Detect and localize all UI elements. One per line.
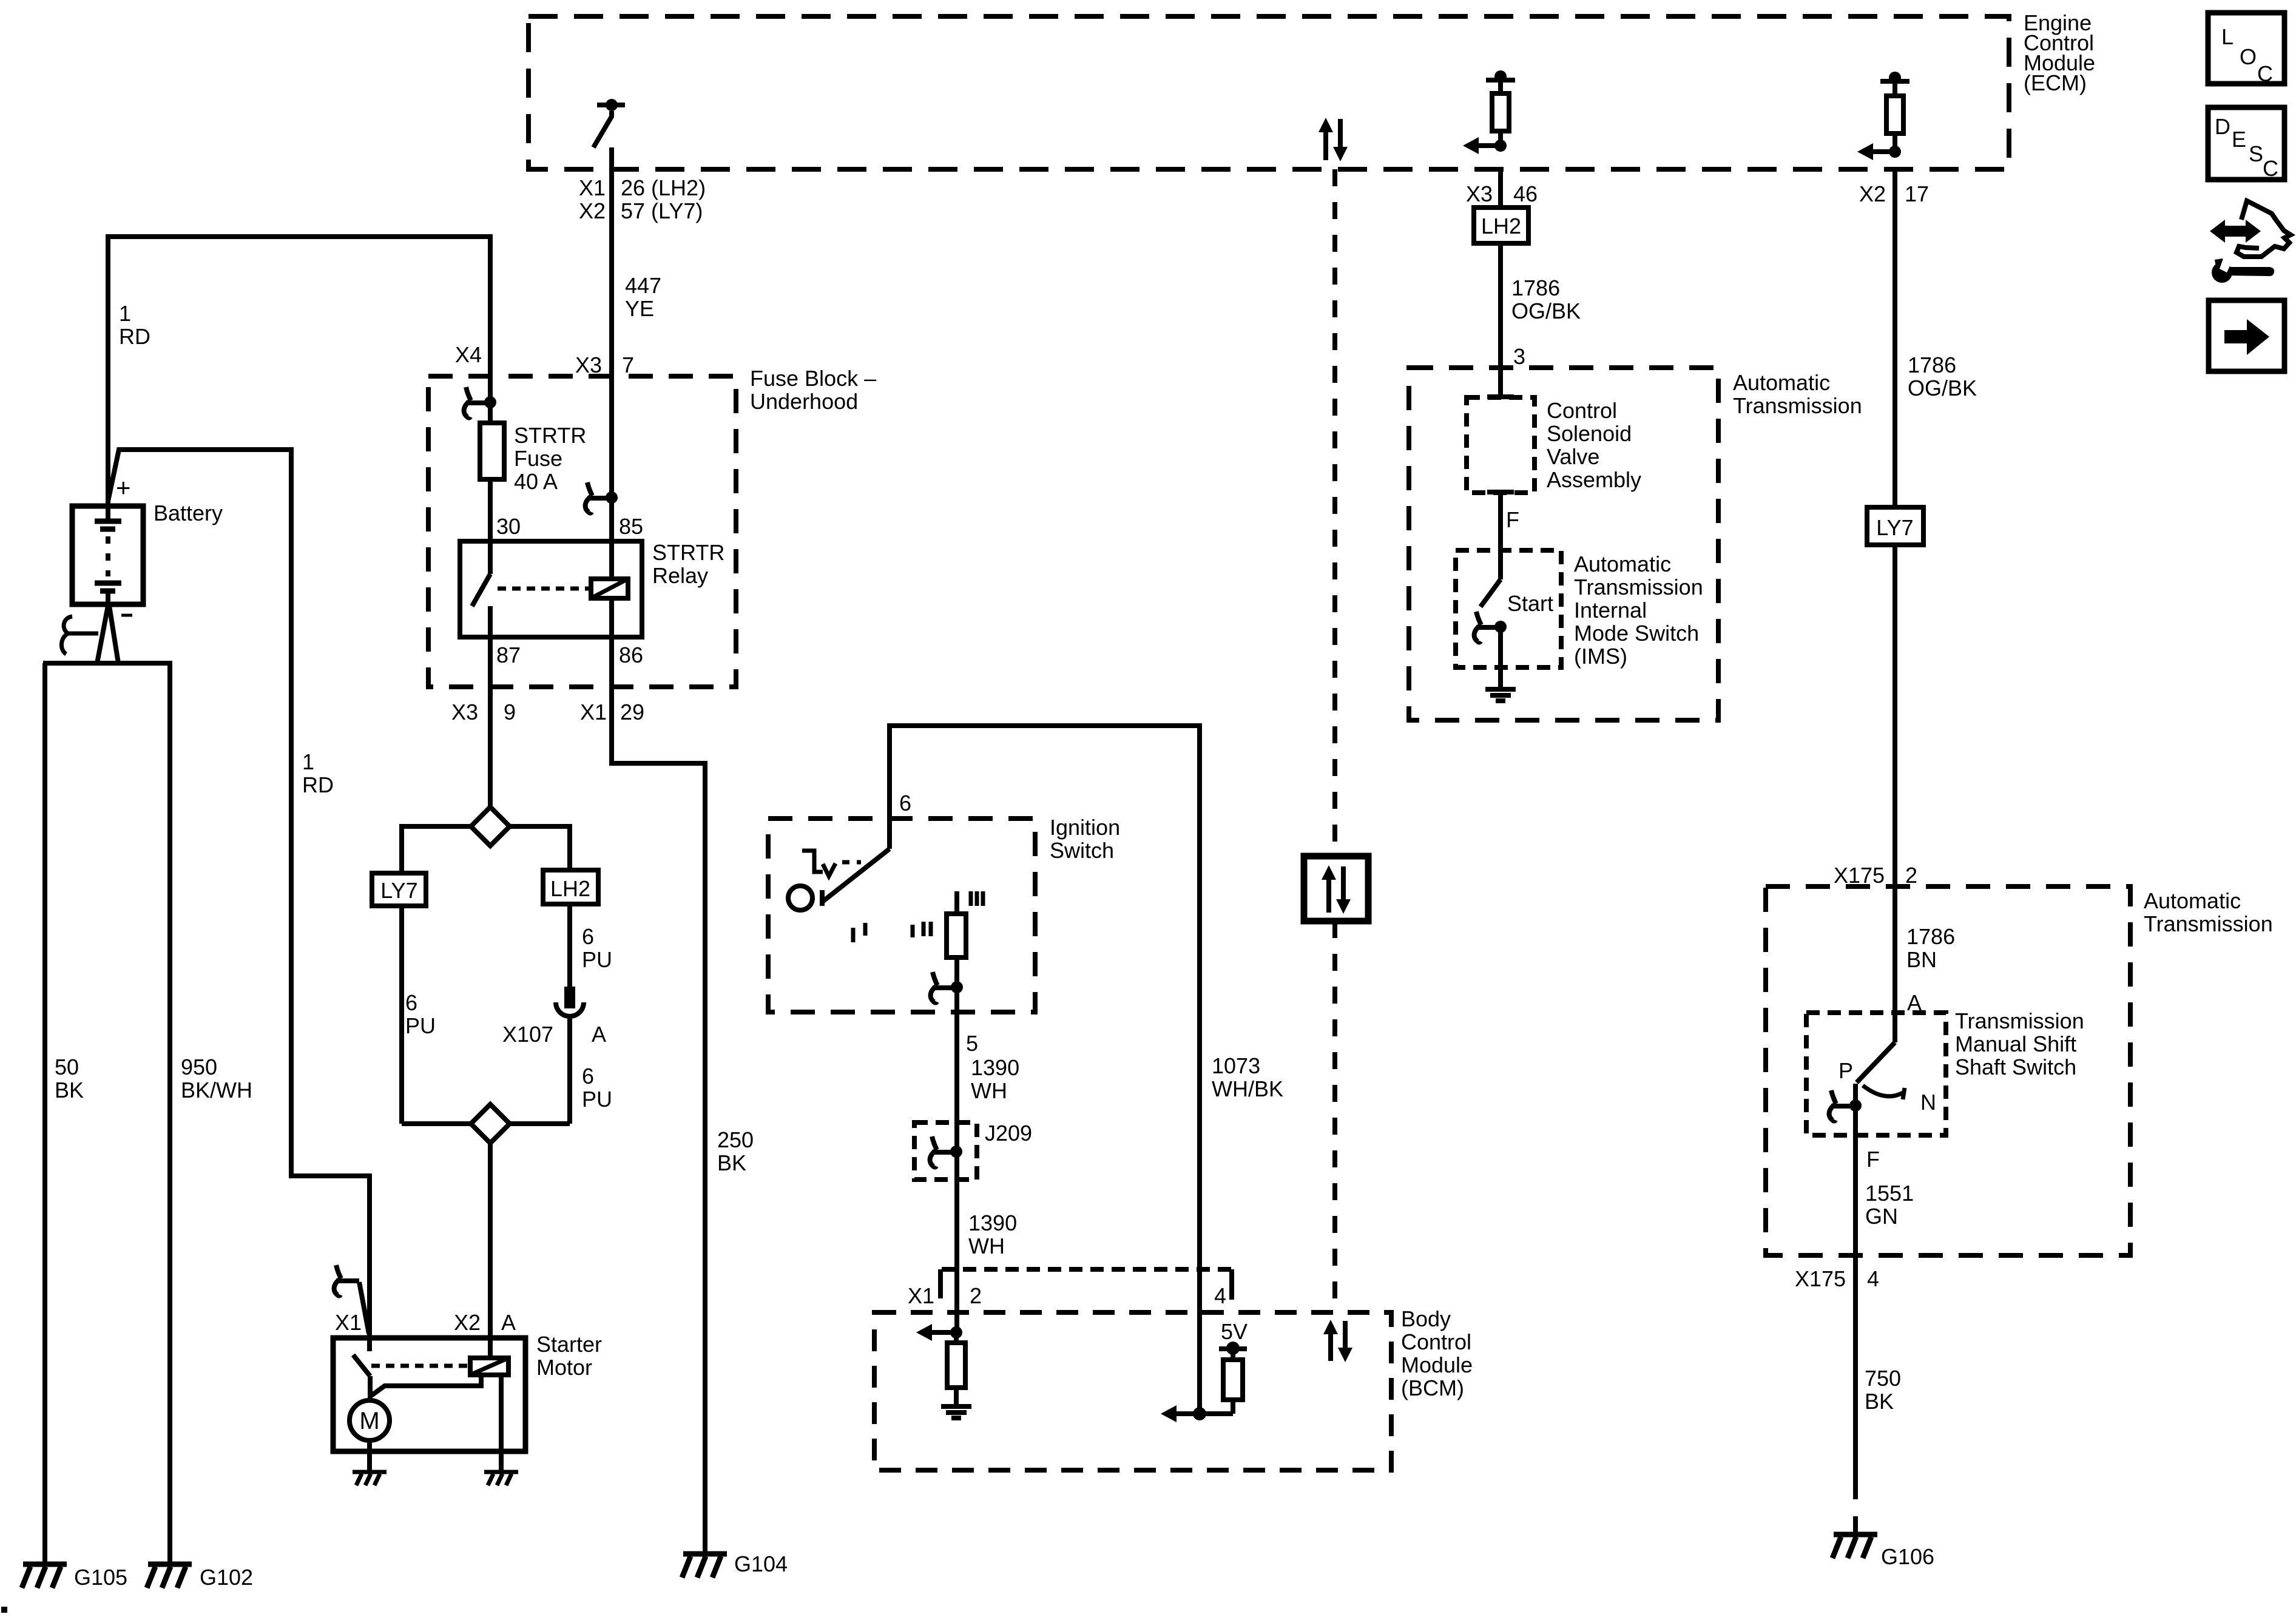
svg-text:85: 85 bbox=[619, 514, 643, 539]
svg-text:G106: G106 bbox=[1881, 1544, 1934, 1569]
svg-text:Automatic: Automatic bbox=[1733, 370, 1830, 395]
svg-text:X3: X3 bbox=[575, 353, 602, 377]
control solenoid valve assembly dashed box bbox=[1467, 397, 1535, 493]
svg-text:X1: X1 bbox=[335, 1310, 362, 1335]
svg-text:OG/BK: OG/BK bbox=[1908, 376, 1977, 400]
svg-text:STRTR: STRTR bbox=[514, 423, 586, 448]
relay coil bbox=[591, 579, 628, 598]
BCM pull-down resistor bbox=[947, 1343, 965, 1388]
svg-text:X1: X1 bbox=[580, 700, 607, 724]
svg-text:1390: 1390 bbox=[968, 1210, 1017, 1235]
ECM pull-up resistor to LH2 output X3-46 bbox=[1494, 70, 1507, 83]
engine code box LH2 bbox=[543, 870, 598, 904]
ignition switch blade bbox=[821, 849, 890, 903]
svg-text:C: C bbox=[2257, 61, 2273, 86]
svg-text:Transmission: Transmission bbox=[1574, 575, 1703, 599]
svg-text:40 A: 40 A bbox=[514, 469, 558, 494]
serial data dashed wire lower half bbox=[1332, 921, 1337, 1312]
svg-text:GN: GN bbox=[1865, 1204, 1898, 1229]
svg-text:Transmission: Transmission bbox=[2144, 911, 2273, 936]
svg-text:STRTR: STRTR bbox=[652, 540, 724, 565]
wire 6 PU below X107 bbox=[567, 1019, 572, 1124]
serial data dashed wire from ECM to BCM bbox=[1332, 169, 1337, 856]
svg-text:RD: RD bbox=[302, 772, 334, 797]
svg-text:BK: BK bbox=[1865, 1389, 1894, 1414]
svg-text:Internal: Internal bbox=[1574, 598, 1647, 623]
splice diamond lower bbox=[402, 1121, 471, 1126]
svg-text:Transmission: Transmission bbox=[1733, 393, 1862, 418]
IMS ground wire bbox=[1498, 627, 1503, 689]
diagnostic hand and wrench icon bbox=[2210, 201, 2291, 283]
svg-text:WH/BK: WH/BK bbox=[1212, 1076, 1283, 1101]
svg-text:+: + bbox=[116, 473, 131, 502]
ignition position ticks I bbox=[851, 928, 856, 942]
svg-text:950: 950 bbox=[181, 1055, 217, 1079]
starter dashed link bbox=[371, 1364, 470, 1368]
svg-text:D: D bbox=[2215, 114, 2230, 139]
automatic transmission dashed box (shift switch) bbox=[1766, 886, 2130, 1255]
svg-text:BK: BK bbox=[55, 1078, 84, 1102]
wire to LY7 branch bbox=[402, 826, 471, 873]
svg-text:S: S bbox=[2249, 141, 2263, 166]
ground G104 bbox=[683, 1551, 727, 1557]
svg-text:X2: X2 bbox=[579, 198, 606, 223]
svg-text:PU: PU bbox=[582, 1087, 612, 1112]
svg-text:7: 7 bbox=[622, 353, 634, 377]
svg-text:Module: Module bbox=[1401, 1352, 1473, 1377]
battery negative clip bbox=[61, 616, 72, 654]
svg-text:250: 250 bbox=[717, 1127, 754, 1152]
svg-text:3: 3 bbox=[1513, 344, 1525, 369]
svg-text:Underhood: Underhood bbox=[750, 389, 858, 414]
starter motor M bbox=[349, 1400, 390, 1440]
svg-text:X2: X2 bbox=[1859, 181, 1886, 206]
svg-text:Switch: Switch bbox=[1050, 838, 1114, 863]
svg-text:26 (LH2): 26 (LH2) bbox=[621, 175, 706, 200]
svg-text:5V: 5V bbox=[1221, 1319, 1248, 1344]
IMS ground bbox=[1485, 687, 1516, 692]
svg-text:Mode Switch: Mode Switch bbox=[1574, 621, 1699, 646]
svg-text:(IMS): (IMS) bbox=[1574, 644, 1627, 669]
svg-text:6: 6 bbox=[405, 990, 417, 1015]
transmission manual shift shaft switch dashed box bbox=[1806, 1013, 1946, 1135]
forward arrow legend box bbox=[2209, 300, 2284, 371]
svg-text:6: 6 bbox=[582, 924, 594, 949]
wire relay 87 to splice bbox=[488, 687, 493, 807]
svg-text:5: 5 bbox=[966, 1031, 978, 1056]
svg-text:2: 2 bbox=[970, 1283, 982, 1308]
svg-text:P: P bbox=[1838, 1058, 1853, 1083]
svg-text:4: 4 bbox=[1867, 1266, 1879, 1291]
svg-text:(ECM): (ECM) bbox=[2024, 70, 2087, 95]
svg-text:E: E bbox=[2232, 127, 2246, 152]
connector X107 pin A bbox=[564, 987, 575, 1008]
svg-text:PU: PU bbox=[582, 947, 612, 972]
BCM internal ground bbox=[941, 1404, 971, 1409]
svg-text:OG/BK: OG/BK bbox=[1511, 299, 1581, 323]
dashed wire 750 BK to ground bbox=[1853, 1481, 1858, 1534]
splice diamond upper bbox=[471, 807, 510, 846]
svg-text:LH2: LH2 bbox=[1481, 214, 1521, 238]
svg-text:1: 1 bbox=[302, 749, 314, 774]
fuse block underhood dashed box bbox=[428, 376, 736, 687]
engine control module ECM dashed box bbox=[528, 16, 2009, 169]
svg-text:G102: G102 bbox=[200, 1565, 253, 1590]
solenoid output to motor bbox=[371, 1375, 481, 1396]
body control module dashed box bbox=[874, 1312, 1391, 1470]
svg-text:4: 4 bbox=[1214, 1283, 1226, 1308]
svg-text:BN: BN bbox=[1906, 947, 1937, 972]
BCM X1 connector dashed line bbox=[942, 1267, 1232, 1272]
svg-text:6: 6 bbox=[582, 1064, 594, 1089]
ECM internal ignition voltage switch bbox=[593, 99, 625, 147]
svg-text:BK: BK bbox=[717, 1150, 746, 1175]
svg-text:Body: Body bbox=[1401, 1306, 1451, 1331]
svg-text:X4: X4 bbox=[455, 342, 482, 367]
battery bbox=[72, 506, 143, 604]
svg-text:Solenoid: Solenoid bbox=[1547, 421, 1632, 446]
motor case ground wire bbox=[367, 1440, 372, 1472]
svg-text:1786: 1786 bbox=[1511, 275, 1560, 300]
svg-text:Automatic: Automatic bbox=[2144, 888, 2241, 913]
wire 1551 GN to X175-4 bbox=[1853, 1106, 1858, 1481]
automatic transmission dashed box (IMS) bbox=[1409, 368, 1718, 720]
svg-text:LY7: LY7 bbox=[380, 878, 417, 903]
svg-text:1073: 1073 bbox=[1212, 1053, 1260, 1078]
STRTR relay box bbox=[460, 541, 642, 637]
svg-text:X107: X107 bbox=[502, 1022, 553, 1047]
DESC legend box bbox=[2208, 107, 2284, 180]
relay switch contact bbox=[488, 541, 493, 574]
automatic transmission internal mode switch dashed box bbox=[1456, 550, 1561, 667]
starter X1 connector clip bbox=[336, 1265, 341, 1278]
page period mark bbox=[1, 1607, 7, 1613]
svg-text:LY7: LY7 bbox=[1876, 515, 1913, 540]
svg-text:17: 17 bbox=[1905, 181, 1929, 206]
shift switch P junction with clip bbox=[1853, 1084, 1858, 1106]
svg-text:X1: X1 bbox=[579, 175, 606, 200]
wire 950 BK/WH to G102 bbox=[167, 663, 172, 1564]
svg-text:Control: Control bbox=[1401, 1329, 1471, 1354]
starter motor box bbox=[333, 1338, 525, 1451]
wire 1786 BN to transmission switch bbox=[1893, 545, 1897, 1042]
svg-text:29: 29 bbox=[620, 700, 644, 724]
STRTR fuse 40A bbox=[480, 423, 504, 479]
svg-text:Ignition: Ignition bbox=[1050, 815, 1120, 840]
svg-text:WH: WH bbox=[971, 1078, 1007, 1103]
serial data boxed up/down arrow symbol bbox=[1304, 856, 1368, 921]
BCM serial data up/down arrows bbox=[1328, 1332, 1333, 1361]
starter solenoid coil bbox=[470, 1358, 508, 1375]
wire 6 PU right branch bbox=[567, 904, 572, 987]
wire 1 RD battery positive to starter solenoid X1 bbox=[108, 450, 370, 1351]
svg-text:PU: PU bbox=[405, 1013, 436, 1038]
BCM junction and output arrow bbox=[1193, 1407, 1206, 1420]
svg-text:WH: WH bbox=[968, 1234, 1005, 1258]
starter switch contact from X1 bbox=[353, 1355, 370, 1376]
svg-text:BK/WH: BK/WH bbox=[181, 1078, 252, 1102]
solenoid coil ground wire bbox=[499, 1375, 504, 1472]
ECM serial data up/down arrows bbox=[1323, 130, 1328, 160]
svg-text:750: 750 bbox=[1865, 1366, 1901, 1391]
svg-text:O: O bbox=[2240, 44, 2257, 69]
svg-text:A: A bbox=[592, 1022, 606, 1047]
J209 junction dot and clip bbox=[950, 1146, 962, 1158]
engine code box LY7 bbox=[372, 873, 426, 906]
ignition position ticks II bbox=[911, 925, 915, 937]
wire from solenoid assembly pin F bbox=[1498, 492, 1503, 579]
svg-text:N: N bbox=[1920, 1090, 1936, 1115]
svg-text:A: A bbox=[501, 1310, 516, 1335]
battery lower plates bbox=[95, 581, 121, 586]
svg-text:C: C bbox=[2263, 156, 2278, 181]
ground bus from battery negative bbox=[43, 661, 172, 666]
ground G106 bbox=[1834, 1532, 1877, 1538]
svg-text:6: 6 bbox=[899, 791, 911, 815]
wire 1786 OG/BK from ECM X2-17 bbox=[1893, 169, 1897, 507]
svg-text:1786: 1786 bbox=[1908, 353, 1956, 377]
svg-text:Fuse: Fuse bbox=[514, 446, 562, 471]
wire 1 RD battery positive to fuse block X4 bbox=[108, 237, 490, 505]
ECM pull-up resistor to LY7 output X2-17 bbox=[1889, 72, 1901, 84]
battery internal dashed electrolyte bbox=[106, 536, 110, 576]
wire 1786 OG/BK to solenoid assembly pin 3 bbox=[1498, 243, 1503, 397]
svg-text:86: 86 bbox=[619, 643, 643, 667]
wire fuse to relay pin 30 bbox=[488, 479, 493, 541]
ignition rotor circle bbox=[788, 886, 812, 910]
ignition key symbol bbox=[802, 851, 823, 872]
wire ignition pin 6 loop to BCM pin 4 bbox=[890, 726, 1200, 1269]
solenoid assembly terminal bars bbox=[1487, 394, 1514, 399]
svg-text:1390: 1390 bbox=[971, 1055, 1019, 1080]
svg-text:Battery: Battery bbox=[154, 501, 223, 525]
svg-text:Assembly: Assembly bbox=[1547, 467, 1641, 492]
wire 1786 OG/BK from ECM X3-46 bbox=[1498, 169, 1503, 208]
shift switch position arc with N tick bbox=[1863, 1085, 1903, 1096]
X4 connector clip with junction bbox=[466, 387, 471, 400]
svg-text:87: 87 bbox=[496, 643, 521, 667]
svg-text:F: F bbox=[1506, 507, 1519, 532]
BCM input junction from ignition bbox=[950, 1326, 962, 1338]
IMS start switch blade bbox=[1481, 579, 1501, 607]
svg-text:50: 50 bbox=[55, 1055, 79, 1079]
svg-text:J209: J209 bbox=[985, 1121, 1032, 1146]
svg-text:Fuse Block –: Fuse Block – bbox=[750, 366, 876, 391]
shift switch blade A to P bbox=[1857, 1042, 1895, 1082]
splice J209 dashed box bbox=[914, 1122, 977, 1180]
wire 447 YE clip at relay pin 85 bbox=[587, 482, 592, 496]
svg-text:Motor: Motor bbox=[536, 1355, 592, 1380]
svg-text:Automatic: Automatic bbox=[1574, 552, 1671, 576]
connector code box LH2 bbox=[1474, 208, 1528, 243]
svg-text:1551: 1551 bbox=[1865, 1181, 1914, 1206]
svg-text:9: 9 bbox=[504, 700, 516, 724]
wire splice to starter solenoid A bbox=[488, 1143, 493, 1358]
ignition position ticks III bbox=[969, 891, 973, 906]
wire 6 PU left branch bbox=[399, 906, 404, 1124]
svg-text:Manual Shift: Manual Shift bbox=[1955, 1031, 2076, 1056]
wire 250 BK relay 86 to G104 bbox=[612, 687, 705, 1554]
connector code box LY7 bbox=[1867, 507, 1923, 545]
svg-text:2: 2 bbox=[1905, 863, 1917, 888]
ignition output clip junction bbox=[951, 981, 963, 993]
wire 447 YE from ECM to fuse block pin X3-7 bbox=[609, 147, 614, 541]
svg-text:Starter: Starter bbox=[536, 1332, 602, 1357]
svg-text:Valve: Valve bbox=[1547, 444, 1599, 469]
svg-text:Control: Control bbox=[1547, 398, 1617, 423]
svg-text:F: F bbox=[1866, 1147, 1880, 1172]
svg-text:X1: X1 bbox=[908, 1283, 934, 1308]
ground G105 bbox=[23, 1562, 67, 1567]
svg-text:YE: YE bbox=[625, 296, 654, 321]
svg-text:57 (LY7): 57 (LY7) bbox=[621, 198, 703, 223]
svg-text:X2: X2 bbox=[454, 1310, 481, 1335]
wire ignition pin 5 down bbox=[954, 957, 959, 1332]
ignition start contact bbox=[947, 914, 966, 957]
IMS switch common junction with clip bbox=[1494, 621, 1507, 633]
svg-text:G104: G104 bbox=[734, 1551, 788, 1576]
wire 1073 inside BCM bbox=[1197, 1269, 1202, 1414]
wire 50 BK to G105 bbox=[42, 663, 47, 1564]
svg-text:46: 46 bbox=[1513, 181, 1538, 206]
svg-text:X3: X3 bbox=[451, 700, 478, 724]
svg-text:Shaft Switch: Shaft Switch bbox=[1955, 1055, 2076, 1079]
relay coil wires pin 85 to 86 bbox=[609, 541, 614, 579]
relay dashed actuation link bbox=[498, 587, 591, 591]
svg-text:L: L bbox=[2221, 24, 2234, 49]
svg-text:G105: G105 bbox=[74, 1565, 127, 1590]
svg-text:Start: Start bbox=[1507, 591, 1553, 616]
ignition switch dashed box bbox=[768, 819, 1035, 1012]
svg-text:(BCM): (BCM) bbox=[1401, 1376, 1464, 1400]
svg-text:RD: RD bbox=[119, 324, 150, 349]
BCM 5V resistor bbox=[1223, 1360, 1243, 1400]
svg-text:X3: X3 bbox=[1466, 181, 1493, 206]
svg-text:1786: 1786 bbox=[1906, 924, 1955, 949]
svg-text:X175: X175 bbox=[1795, 1266, 1846, 1291]
battery negative terminal prongs bbox=[97, 606, 108, 663]
svg-text:30: 30 bbox=[496, 514, 521, 539]
svg-text:Relay: Relay bbox=[652, 563, 708, 588]
svg-text:1: 1 bbox=[119, 301, 131, 326]
LOC legend box bbox=[2208, 13, 2284, 84]
ground G102 bbox=[148, 1562, 192, 1567]
wire to LH2 branch bbox=[510, 826, 570, 870]
svg-text:447: 447 bbox=[625, 273, 661, 298]
svg-text:LH2: LH2 bbox=[550, 876, 590, 901]
svg-text:X175: X175 bbox=[1834, 863, 1885, 888]
svg-text:Transmission: Transmission bbox=[1955, 1008, 2084, 1033]
svg-text:M: M bbox=[359, 1408, 379, 1434]
battery negative sign bbox=[121, 614, 132, 617]
